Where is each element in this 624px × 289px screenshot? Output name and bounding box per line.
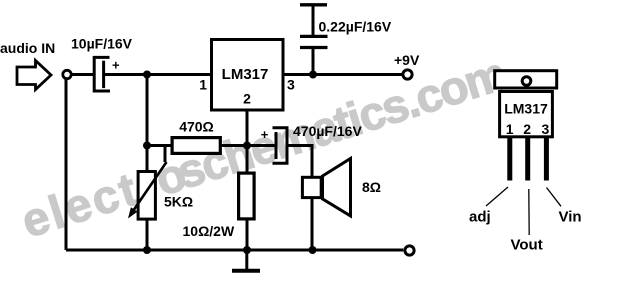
node junction speaker bottom bbox=[309, 246, 317, 254]
svg-text:Vin: Vin bbox=[559, 209, 582, 226]
wire speaker bottom to rail bbox=[311, 198, 314, 250]
transistor package U1 TO-220 hole bbox=[522, 77, 531, 86]
wire input circle to C1 bbox=[72, 73, 95, 76]
svg-text:470Ω: 470Ω bbox=[179, 119, 214, 135]
svg-text:2: 2 bbox=[243, 91, 251, 107]
node output terminal bottom right bbox=[405, 246, 414, 255]
capacitor C1 10uF/16V bbox=[94, 57, 110, 91]
node junction pin2 / R1 / C3 bbox=[243, 142, 251, 150]
svg-text:5KΩ: 5KΩ bbox=[164, 194, 193, 210]
node junction C2 output bbox=[309, 71, 317, 79]
wire LM317 pin2 down bbox=[246, 110, 249, 173]
svg-text:+: + bbox=[112, 58, 120, 73]
wire junction down to pot bbox=[146, 75, 149, 172]
node junction left vertical bbox=[143, 142, 151, 150]
capacitor C2 0.22uF/16V bbox=[300, 5, 328, 75]
wire C3 to speaker bbox=[287, 146, 312, 177]
svg-text:LM317: LM317 bbox=[504, 101, 548, 117]
wire pot bottom to rail bbox=[146, 219, 149, 250]
svg-text:audio IN: audio IN bbox=[0, 40, 55, 56]
svg-text:+: + bbox=[261, 127, 269, 142]
svg-text:Vout: Vout bbox=[511, 237, 543, 254]
node junction input/pot bbox=[143, 71, 151, 79]
pin leg 3 Vin bbox=[544, 138, 549, 181]
svg-text:1: 1 bbox=[199, 77, 207, 93]
transistor package U1 TO-220 tab bbox=[495, 71, 557, 88]
svg-text:2: 2 bbox=[523, 121, 531, 137]
leader line adj bbox=[486, 187, 508, 206]
svg-text:10µF/16V: 10µF/16V bbox=[71, 36, 133, 52]
svg-text:10Ω/2W: 10Ω/2W bbox=[183, 223, 235, 239]
pin leg 1 adj bbox=[507, 138, 512, 181]
node audio IN input terminal bbox=[63, 70, 71, 78]
leader line Vout bbox=[528, 189, 530, 235]
svg-text:8Ω: 8Ω bbox=[362, 179, 381, 195]
svg-text:470µF/16V: 470µF/16V bbox=[293, 123, 362, 139]
node +9V terminal bbox=[403, 70, 412, 79]
svg-text:adj: adj bbox=[469, 209, 491, 226]
svg-text:1: 1 bbox=[506, 121, 514, 137]
potentiometer VR1 wiper arrow bbox=[128, 162, 167, 219]
svg-text:0.22µF/16V: 0.22µF/16V bbox=[319, 19, 392, 35]
pin leg 2 Vout bbox=[525, 138, 530, 181]
svg-text:3: 3 bbox=[287, 77, 295, 93]
potentiometer VR1 5K body bbox=[138, 172, 155, 220]
transistor package U1 TO-220 body bbox=[500, 92, 553, 137]
input arrow symbol bbox=[17, 61, 51, 90]
ground bbox=[232, 250, 260, 271]
wire pot wiper stub bbox=[164, 146, 167, 163]
node junction pot bottom bbox=[143, 246, 151, 254]
wire LM317 pin3 to +9V bbox=[283, 73, 403, 76]
svg-text:+9V: +9V bbox=[394, 52, 420, 68]
resistor R2 10 ohm 2W bbox=[239, 173, 255, 219]
capacitor C3 470uF/16V bbox=[273, 128, 288, 164]
wire bottom rail bbox=[66, 249, 403, 252]
wire C1 to LM317 pin1 bbox=[104, 73, 212, 76]
wire mid horizontal R1 to junction bbox=[147, 144, 276, 147]
svg-text:3: 3 bbox=[542, 121, 550, 137]
svg-text:LM317: LM317 bbox=[222, 66, 269, 83]
leader line Vin bbox=[547, 188, 562, 207]
node junction ground bbox=[243, 246, 251, 254]
wire left vertical input to rail bbox=[65, 78, 68, 250]
wire R2 bottom to rail bbox=[246, 219, 249, 250]
speaker LS1 box bbox=[302, 177, 321, 197]
IC U1 LM317 regulator box bbox=[212, 40, 284, 111]
speaker LS1 horn bbox=[323, 159, 351, 216]
resistor R1 470 ohm bbox=[172, 138, 220, 154]
